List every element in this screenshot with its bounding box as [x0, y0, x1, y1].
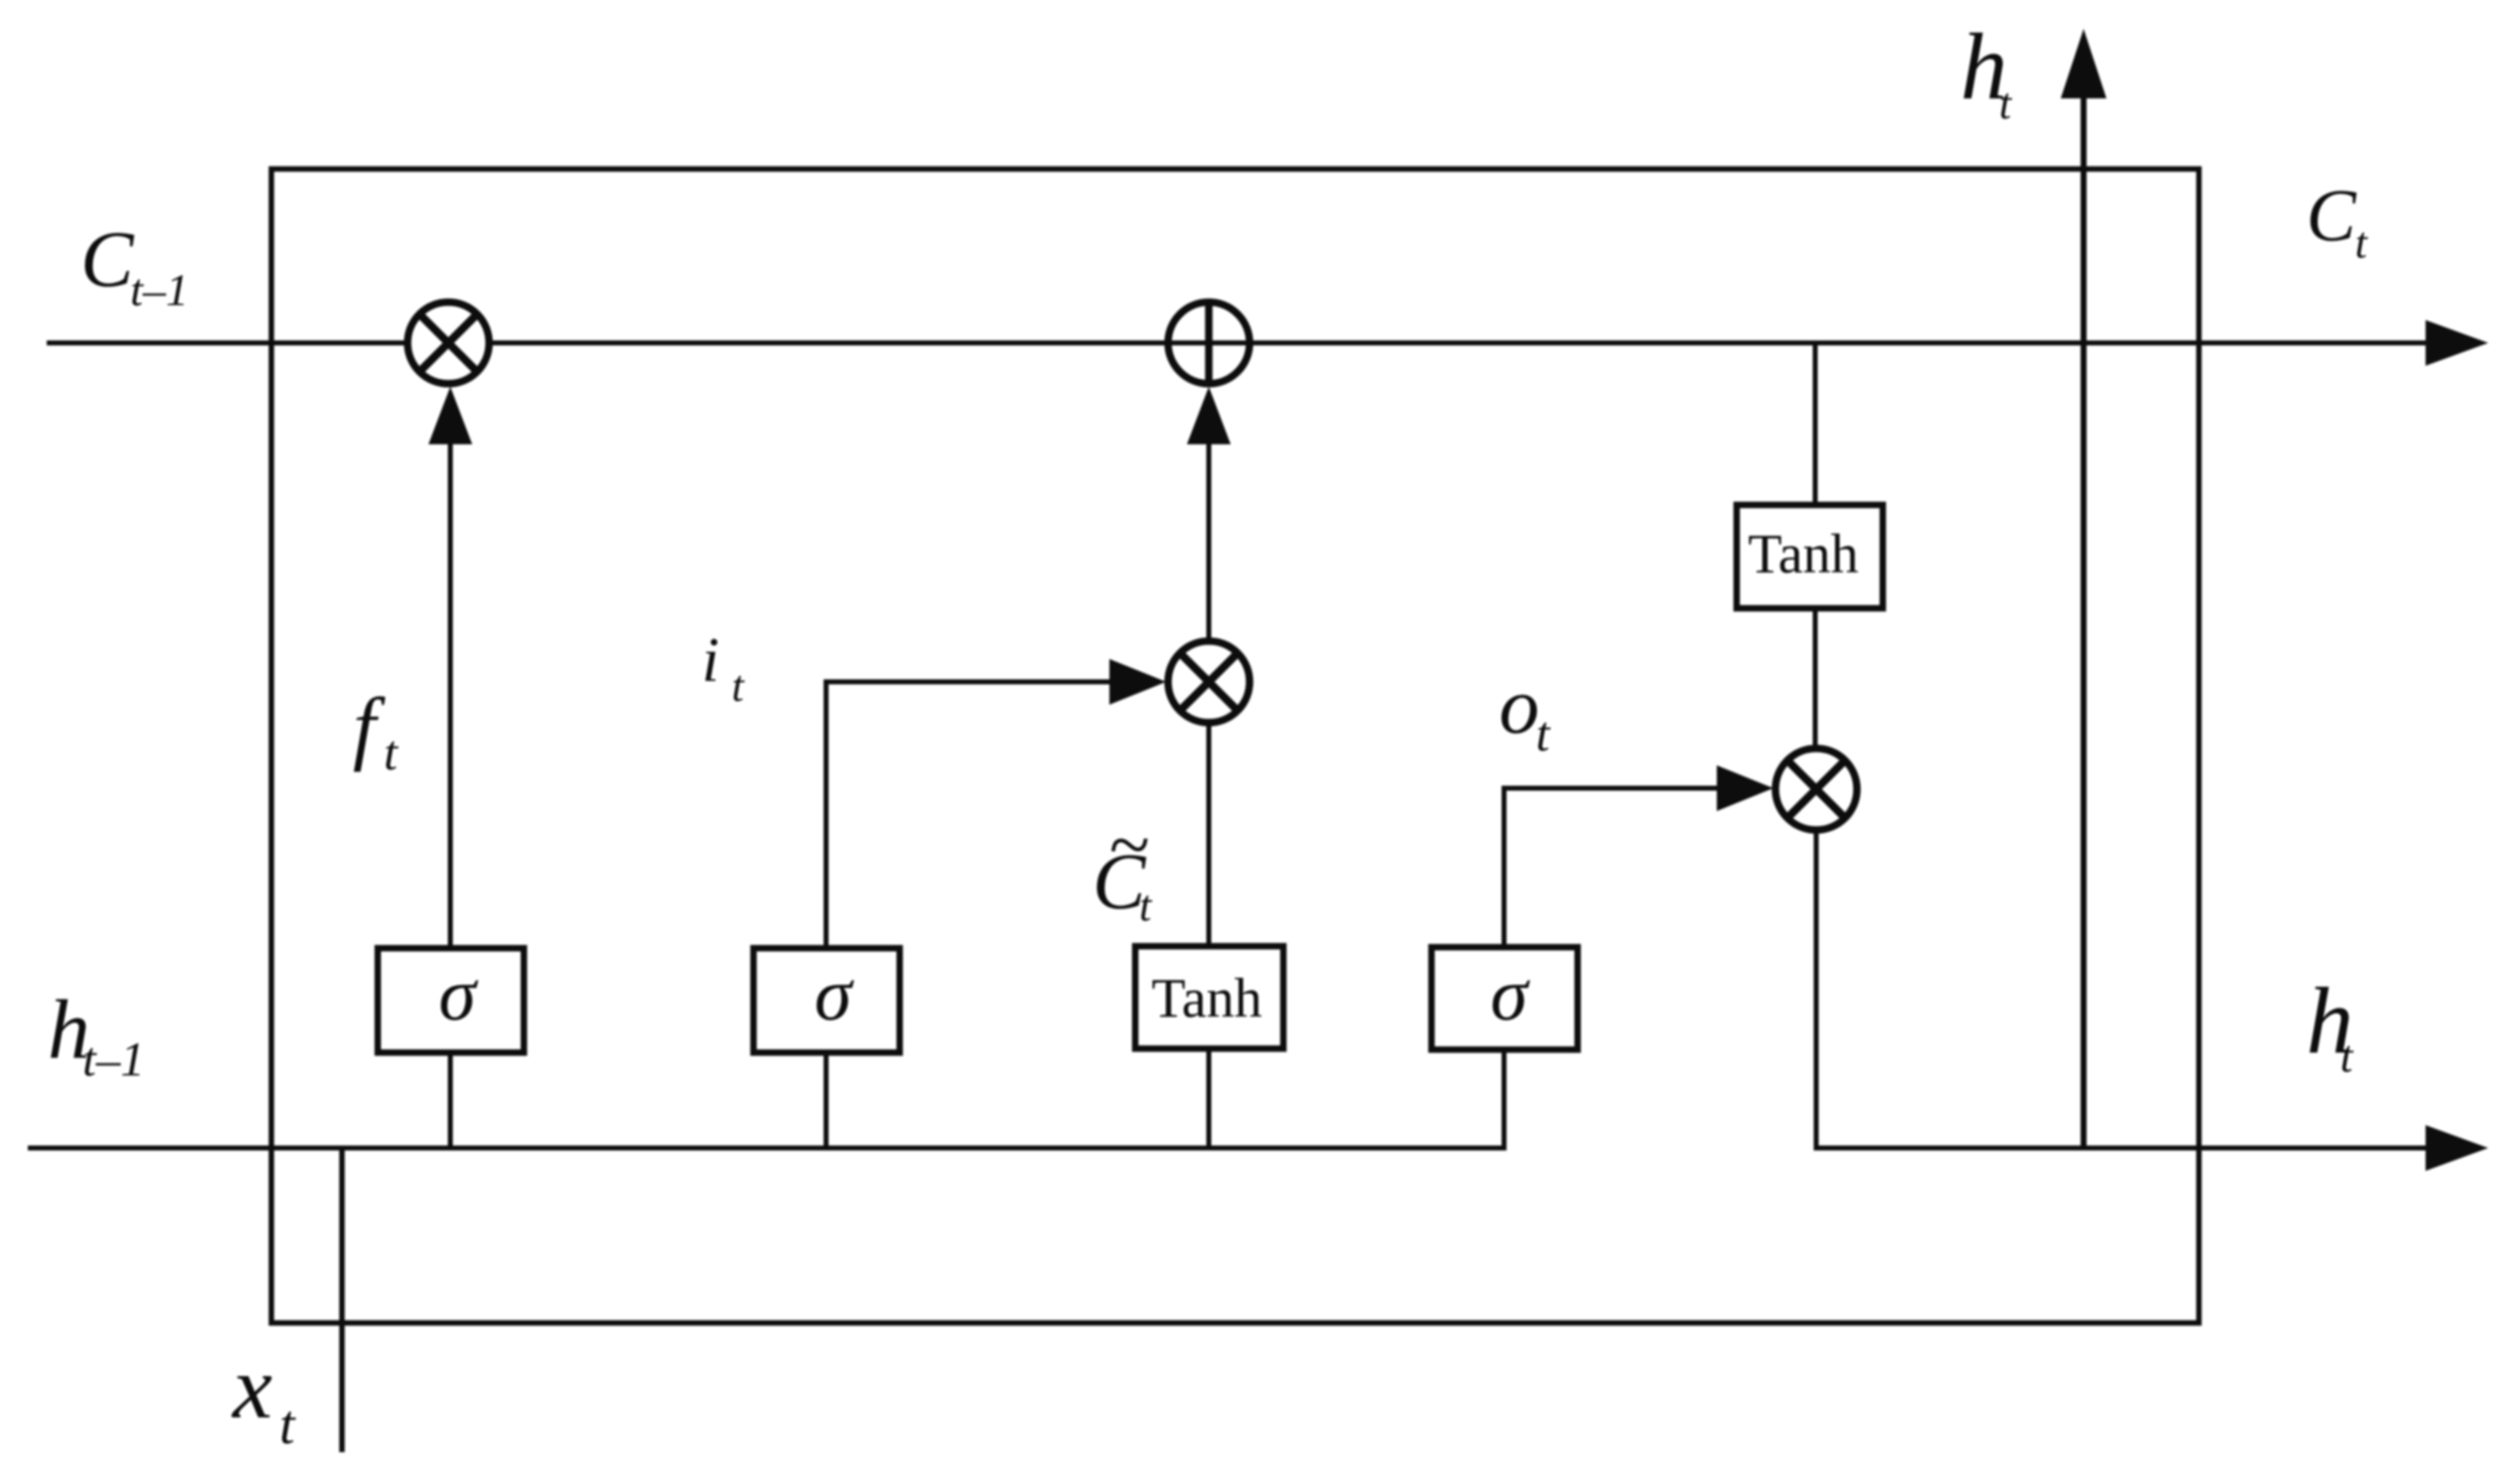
svg-text:Tanh: Tanh: [1748, 524, 1858, 585]
svg-text:t–1: t–1: [83, 1032, 145, 1086]
sigma box 3 (output gate): [1431, 947, 1578, 1050]
svg-text:σ: σ: [814, 953, 854, 1037]
arrowhead o_t: [1717, 765, 1773, 811]
svg-text:t: t: [2355, 219, 2369, 267]
forget gate multiply node: [408, 302, 489, 384]
add node: [1168, 302, 1250, 384]
wire sigma1 to h line: [448, 1053, 453, 1148]
arrowhead h_t up: [2061, 29, 2106, 98]
svg-text:C: C: [81, 217, 135, 304]
cell state line C left of forget node: [47, 341, 407, 346]
wire f_t from sigma1 up to forget multiply: [448, 441, 453, 948]
arrowhead i_t: [1109, 659, 1166, 705]
wire sigma2 to h line: [824, 1053, 829, 1148]
wire output Tanh to output multiply: [1813, 608, 1818, 748]
svg-text:i: i: [702, 625, 720, 695]
wire x_t input: [339, 1148, 345, 1452]
input gate multiply node: [1168, 641, 1250, 723]
svg-text:C: C: [2306, 175, 2357, 257]
svg-text:t: t: [1536, 706, 1551, 761]
candidate Tanh box: [1135, 946, 1283, 1049]
hidden state output arrowhead: [2426, 1125, 2488, 1171]
wire o_t from sigma3 to output multiply: [1504, 788, 1717, 947]
wire h_t up arrow: [2081, 96, 2087, 1148]
output gate multiply node: [1775, 748, 1857, 830]
arrowhead into add node: [1187, 387, 1231, 444]
svg-text:Tanh: Tanh: [1151, 968, 1261, 1030]
svg-text:t: t: [1139, 882, 1153, 930]
cell state output arrowhead: [2426, 320, 2488, 366]
svg-text:t: t: [732, 662, 746, 711]
wire input multiply down to candidate Tanh: [1207, 723, 1212, 946]
svg-text:t–1: t–1: [130, 264, 189, 315]
svg-text:t: t: [279, 1394, 296, 1456]
arrowhead f_t: [428, 387, 472, 444]
hidden state line h right segment from output multiply: [1816, 830, 2429, 1148]
cell state line C right of forget node: [490, 341, 2429, 346]
wire i_t from sigma2 to input multiply: [826, 682, 1109, 948]
svg-text:x: x: [231, 1339, 272, 1437]
sigma box 1 (forget gate): [378, 948, 524, 1053]
svg-text:o: o: [1499, 661, 1540, 750]
svg-text:σ: σ: [1490, 953, 1530, 1037]
output Tanh box: [1737, 505, 1883, 608]
hidden state line h left segment with sigma3 corner: [28, 1048, 1504, 1148]
LSTM cell frame: [271, 169, 2199, 1323]
svg-text:t: t: [1999, 80, 2013, 128]
svg-text:~: ~: [1108, 804, 1149, 887]
sigma box 2 (input gate): [754, 948, 900, 1053]
wire C line down to output Tanh: [1813, 343, 1818, 505]
svg-text:t: t: [384, 725, 399, 780]
wire candidate from input multiply up to add node: [1207, 441, 1212, 641]
svg-text:t: t: [2340, 1031, 2354, 1081]
svg-text:σ: σ: [438, 953, 478, 1037]
wire candidate Tanh to h line: [1207, 1049, 1212, 1148]
